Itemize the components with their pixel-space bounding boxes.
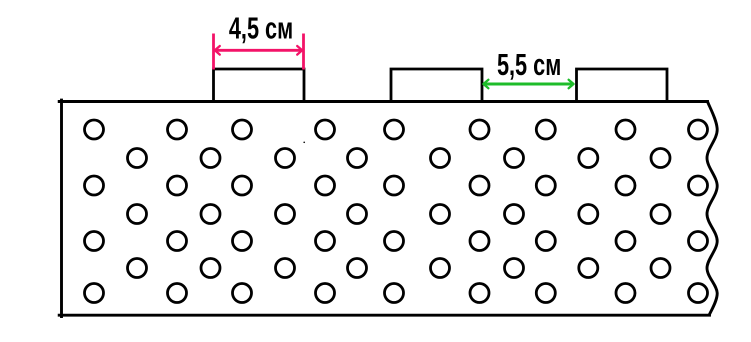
dimension 4,5 cm: extension lines (magenta) xyxy=(214,34,304,70)
stray speck xyxy=(303,142,305,144)
perforated bar outline (left, top, bottom edges) xyxy=(59,100,709,317)
holes row 5 xyxy=(85,232,708,251)
holes row 4 (offset) xyxy=(128,205,671,224)
svg-text:4,5 см: 4,5 см xyxy=(229,11,293,46)
torn wavy right edge of bar xyxy=(707,102,717,316)
holes row 2 (offset) xyxy=(128,149,671,168)
dimension 4,5 cm: arrow line (magenta) xyxy=(216,49,302,52)
dimension 4,5 cm: right arrowhead xyxy=(297,46,302,55)
holes row 6 (offset) xyxy=(128,259,671,278)
tab 1 (left block on top of bar) xyxy=(214,69,305,102)
dimension 4,5 cm: left arrowhead xyxy=(215,46,220,55)
holes row 7 xyxy=(85,284,708,303)
holes row 1 xyxy=(85,120,708,139)
dimension 5,5 cm: left arrowhead xyxy=(483,80,488,89)
holes row 3 xyxy=(85,176,708,195)
tab 3 (right block on top of bar) xyxy=(577,69,668,102)
dimension 5,5 cm: arrow line (green) xyxy=(484,83,573,86)
tab 2 (middle block on top of bar) xyxy=(391,69,482,102)
dimension 5,5 cm: right arrowhead xyxy=(569,80,574,89)
svg-text:5,5 см: 5,5 см xyxy=(497,47,561,82)
